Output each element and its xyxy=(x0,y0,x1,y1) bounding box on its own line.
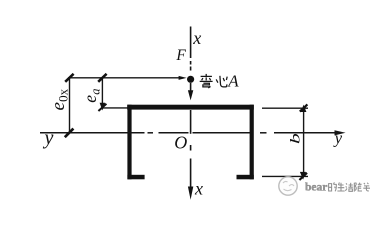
b dimension bottom arrowhead (down) xyxy=(300,172,306,180)
x axis: dash 2 xyxy=(190,67,192,71)
svg-text:y: y xyxy=(43,127,54,149)
force F arrowhead xyxy=(188,90,193,100)
y axis: short dash left of O xyxy=(148,132,154,134)
x axis: top solid segment xyxy=(190,27,192,59)
b dimension: upper extension line xyxy=(262,107,308,109)
b dimension top arrowhead (up) xyxy=(301,105,307,112)
b dimension vertical line xyxy=(303,107,305,177)
y axis: right segment with arrow xyxy=(274,132,336,134)
watermark logo circle xyxy=(279,177,297,195)
svg-text:a: a xyxy=(89,89,103,95)
e0x extension line (vertical) xyxy=(69,78,71,133)
活 xyxy=(345,183,353,192)
x axis: short dash below O xyxy=(190,145,192,151)
label 弯 (hand-drawn glyph) xyxy=(200,74,213,88)
y axis: short dash right of web xyxy=(260,132,267,134)
tick slash at top of b line xyxy=(300,104,308,111)
svg-text:x: x xyxy=(192,28,201,48)
ea extension line (vertical) xyxy=(101,78,103,107)
随 xyxy=(354,183,362,192)
svg-text:e: e xyxy=(80,95,100,103)
label b (rotated) xyxy=(287,133,302,144)
svg-text:b: b xyxy=(287,133,302,144)
svg-text:e: e xyxy=(48,102,69,110)
y axis: segment O to right web xyxy=(193,132,251,134)
channel section: top flange xyxy=(127,105,254,110)
watermark text 的生活随笔 (hand-drawn glyphs) xyxy=(329,182,370,191)
svg-text:bear: bear xyxy=(305,181,327,193)
shear centre dot (弯心 A) xyxy=(187,76,194,83)
tick slash at top of e0x line xyxy=(65,74,73,82)
svg-text:O: O xyxy=(174,133,187,153)
dimension line top (e0x / ea) xyxy=(68,77,180,79)
的 xyxy=(329,182,337,191)
生 xyxy=(337,182,344,191)
channel section: right web xyxy=(250,105,254,180)
label e0x (rotated) xyxy=(48,88,71,110)
b dimension: lower extension line xyxy=(262,175,308,177)
x axis: segment through flange to O xyxy=(190,110,192,134)
label ea (rotated) xyxy=(80,89,102,103)
svg-text:x: x xyxy=(194,179,203,199)
channel section: right bottom lip xyxy=(237,175,254,180)
笔 xyxy=(363,183,370,191)
x axis bottom arrowhead xyxy=(188,187,193,200)
tick slash at bottom of b line xyxy=(299,173,307,180)
x axis: dash 1 xyxy=(190,61,192,65)
down arrow at bottom of ea line xyxy=(100,103,106,111)
dimension line top right arrowhead at dot xyxy=(179,76,187,80)
y axis: long dash through O xyxy=(159,132,189,134)
svg-text:F: F xyxy=(175,47,186,64)
y axis: left horizontal centerline xyxy=(40,132,145,134)
tick slash at top of ea line xyxy=(98,74,106,82)
channel section: left web xyxy=(127,105,131,180)
channel section: left bottom lip xyxy=(127,175,144,180)
label 心 (hand-drawn glyph) xyxy=(216,76,227,87)
svg-text:0x: 0x xyxy=(55,88,70,102)
svg-text:A: A xyxy=(227,71,239,90)
y axis right arrowhead xyxy=(335,130,346,135)
svg-text:y: y xyxy=(333,129,343,148)
tick slash at bottom of ea line xyxy=(98,104,106,111)
tick slash at bottom of e0x line xyxy=(65,129,74,138)
x axis: bottom segment xyxy=(190,159,192,191)
watermark logo doodle xyxy=(283,181,294,190)
thin line from ea foot to flange corner xyxy=(102,107,127,109)
force F arrow shaft xyxy=(190,83,192,92)
